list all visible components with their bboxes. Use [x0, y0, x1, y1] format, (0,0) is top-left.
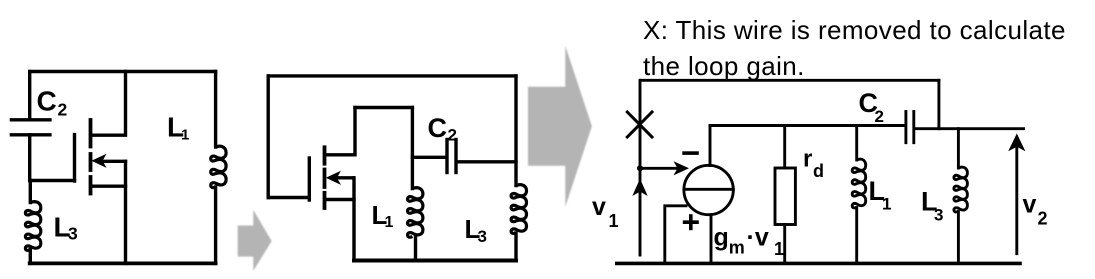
wire: Q1 body/source vertical — [124, 161, 127, 263]
wire: top rail middle circuit — [268, 74, 516, 77]
wire: feedback vertical — [937, 80, 940, 128]
svg-text:L1: L1 — [372, 200, 394, 231]
wire: gate lead of Q2 — [268, 196, 309, 199]
svg-text:v2: v2 — [1023, 191, 1048, 229]
wire: box right vertical down to C2 wire — [411, 108, 414, 189]
wire: left branch middle circuit — [267, 76, 270, 198]
junction dot at arrow base — [637, 165, 643, 171]
wire: v2 arrow vertical — [1015, 148, 1018, 254]
wire: plus terminal L wire — [665, 206, 686, 264]
wire: Q2 drain — [326, 108, 355, 155]
svg-text:L3: L3 — [921, 187, 943, 225]
svg-text:X: This wire is removed to cal: X: This wire is removed to calculate — [643, 15, 1066, 45]
arrowhead: v1 up arrow on input wire — [632, 179, 647, 196]
X mark (removed wire) — [627, 112, 652, 137]
wire: bottom rail middle circuit — [354, 259, 516, 263]
inductor L3 (middle circuit) coil — [511, 185, 526, 234]
wire: main top wire right segment — [915, 127, 1023, 130]
arrowhead: v2 up arrow — [1008, 134, 1025, 152]
plus sign at source — [683, 214, 699, 230]
capacitor C2 (right circuit) plates — [904, 112, 907, 143]
wire: bottom rail right circuit — [617, 262, 1020, 266]
wire: left branch to L3 — [29, 181, 32, 203]
wire: top of box to C2 node — [355, 106, 412, 109]
wire: horizontal arrow line to source — [640, 167, 676, 170]
wire: Q1 source — [92, 184, 126, 187]
wire: left branch above C2 — [28, 72, 31, 120]
svg-text:v1: v1 — [592, 193, 619, 231]
wire: gate lead of Q1 — [30, 179, 75, 182]
inductor L1 (middle circuit) coil — [408, 188, 423, 238]
wire: bottom rail left circuit — [30, 261, 216, 265]
svg-text:C2: C2 — [37, 86, 68, 120]
transistor Q1 channel segments — [89, 120, 93, 147]
wire: L1 top lead (right) — [855, 126, 858, 161]
wire: input vertical v1 — [639, 80, 642, 255]
transistor Q1 gate plate — [73, 135, 76, 181]
wire: right branch above L3 (middle) — [514, 76, 517, 186]
transistor Q2 gate plate — [308, 158, 311, 200]
wire: C2 right wire (middle) — [458, 160, 516, 163]
wire: Q1 drain — [92, 72, 126, 136]
transistor Q1 body arrow head — [91, 154, 106, 168]
wire: right branch below L1 — [214, 187, 217, 263]
wire: below L3 — [29, 250, 32, 264]
wire: L1 bottom lead (right) — [855, 208, 858, 264]
wire: below L1 (middle) — [414, 237, 417, 261]
wire: Q1 body line — [104, 160, 126, 163]
wire: source top vertical — [709, 126, 712, 166]
minus sign at source — [682, 151, 699, 155]
svg-text:L1: L1 — [869, 176, 892, 214]
arrow (gray block arrow 1) — [238, 210, 272, 271]
wire: left branch below C2 — [28, 135, 31, 181]
wire: L3 bottom lead (right) — [957, 212, 960, 264]
resistor rd box — [775, 168, 795, 225]
svg-text:L3: L3 — [54, 212, 79, 244]
inductor L3 (left circuit) coil — [25, 202, 40, 251]
svg-text:C2: C2 — [859, 88, 884, 126]
wire: L3 top lead (right) — [957, 129, 960, 168]
svg-text:C2: C2 — [428, 113, 457, 145]
capacitor C2 (middle circuit) plates — [445, 140, 448, 173]
svg-text:L1: L1 — [167, 112, 189, 144]
svg-text:gm·v1: gm·v1 — [714, 224, 785, 260]
svg-text:rd: rd — [803, 146, 824, 182]
wire: source bottom vertical — [710, 215, 713, 264]
arrowhead: horizontal arrow into source — [674, 161, 690, 175]
wire: top rail left circuit — [30, 70, 216, 73]
transistor Q2 channel segments — [323, 147, 327, 163]
wire: right branch above L1 — [214, 72, 217, 148]
inductor L1 (left circuit) coil — [211, 146, 226, 187]
arrow (gray block arrow 2) — [528, 46, 592, 207]
wire: below L3 (middle) — [514, 233, 517, 261]
wire: rd top lead — [783, 126, 786, 169]
wire: rd bottom lead — [783, 225, 786, 264]
wire: Q2 source — [326, 198, 354, 201]
wire: Q2 body/source vertical — [352, 178, 355, 261]
svg-text:the loop gain.: the loop gain. — [643, 51, 805, 81]
inductor L3 (right circuit) coil — [954, 167, 968, 212]
transistor Q2 body arrow head — [326, 171, 341, 185]
controlled source U1 diameter line — [684, 188, 733, 191]
wire: main top wire left segment — [710, 124, 904, 127]
wire: feedback top wire — [641, 79, 939, 82]
inductor L1 (right circuit) coil — [852, 159, 866, 208]
svg-text:L3: L3 — [465, 214, 487, 246]
wire: C2 left wire (middle) — [412, 156, 445, 159]
capacitor C2 (left circuit) plates — [11, 118, 50, 121]
controlled source U1 circle — [684, 165, 733, 214]
wire: Q2 body line — [337, 176, 353, 179]
